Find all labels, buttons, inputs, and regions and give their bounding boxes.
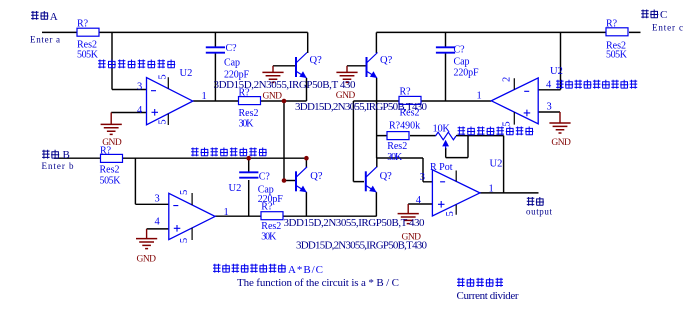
wire node A vertical to op-amp U2A pin 3 bbox=[112, 32, 147, 89]
junction dot Q2 collector on net B bbox=[304, 156, 309, 161]
svg-text:505K: 505K bbox=[100, 176, 122, 187]
svg-text:10K: 10K bbox=[433, 123, 451, 134]
wire row to op-amp U2D pin 3 bbox=[377, 158, 433, 182]
wire 490k resistor row bbox=[377, 135, 436, 137]
label adder op-amp note 2 bbox=[191, 148, 267, 157]
ground GND op-amp U2B pin4 bbox=[136, 229, 157, 264]
svg-text:3DD15D,2N3055,IRGP50B,T 430: 3DD15D,2N3055,IRGP50B,T 430 bbox=[214, 79, 357, 91]
resistor R? Res2 505K input C bbox=[606, 28, 628, 36]
wire Q3 collector lead bbox=[375, 32, 377, 53]
wire capacitor C2 top lead bbox=[248, 158, 250, 172]
svg-text:The function of the circuit is: The function of the circuit is a * B / C bbox=[237, 277, 399, 289]
wire op-amp U2B output row through R 30K bbox=[215, 215, 377, 217]
svg-text:4: 4 bbox=[416, 195, 422, 206]
svg-text:5: 5 bbox=[179, 190, 190, 195]
junction dot C2 on net B bbox=[246, 156, 251, 161]
wire op-amp U2B pin 4 bbox=[147, 228, 169, 230]
svg-text:C: C bbox=[660, 9, 667, 21]
svg-text:505K: 505K bbox=[606, 49, 628, 60]
svg-text:GND: GND bbox=[263, 91, 283, 101]
wire op-amp U2D pin 4 bbox=[408, 203, 432, 205]
label input C bbox=[641, 10, 658, 19]
svg-text:C?: C? bbox=[259, 172, 271, 183]
svg-text:U2: U2 bbox=[180, 68, 193, 79]
svg-text:3DD15D,2N3055,IRGP50B,T430: 3DD15D,2N3055,IRGP50B,T430 bbox=[296, 240, 428, 252]
wire capacitor C3 top lead bbox=[445, 32, 447, 47]
resistor R? Res2 stage C bbox=[399, 96, 421, 104]
wire rail C down to op-amp U2C pin 4 bbox=[538, 32, 561, 89]
svg-text:C?: C? bbox=[226, 43, 238, 54]
svg-text:Current divider: Current divider bbox=[457, 290, 519, 302]
wire potentiometer wiper loop bbox=[446, 136, 468, 158]
svg-text:GND: GND bbox=[551, 138, 571, 148]
junction dot node A output bbox=[282, 99, 287, 104]
svg-text:5: 5 bbox=[179, 238, 190, 243]
svg-text:3: 3 bbox=[547, 102, 552, 113]
svg-text:5: 5 bbox=[445, 211, 456, 216]
wire Q4 emitter lead bbox=[375, 192, 377, 216]
wire capacitor C3 bottom lead bbox=[445, 53, 447, 101]
capacitor C2 220pF bbox=[239, 172, 258, 177]
wire Q3 emitter vertical down to 490k row bbox=[376, 78, 378, 158]
svg-text:R?: R? bbox=[606, 19, 618, 30]
wire Q2 collector lead bbox=[305, 158, 307, 167]
svg-text:1: 1 bbox=[202, 91, 207, 102]
wire potentiometer right lead to feedback bbox=[456, 135, 504, 137]
op-amp U2D triangle bbox=[432, 170, 480, 216]
svg-text:A*B/C: A*B/C bbox=[288, 264, 323, 276]
transistor Q3 bbox=[367, 53, 378, 79]
svg-text:R?: R? bbox=[239, 88, 251, 99]
ground GND Q1 base bbox=[262, 66, 283, 102]
potentiometer 10K bbox=[436, 132, 457, 148]
svg-text:4: 4 bbox=[155, 217, 161, 228]
svg-text:R Pot: R Pot bbox=[430, 162, 453, 173]
svg-text:Res2: Res2 bbox=[387, 141, 407, 152]
label adder op-amp note 1 bbox=[98, 60, 175, 69]
ground GND op-amp U2A pin4 bbox=[101, 113, 122, 149]
label input A bbox=[31, 11, 48, 20]
resistor R? Res2 30K stage B bbox=[261, 212, 283, 220]
label input B bbox=[42, 150, 59, 159]
wire Q2 emitter lead bbox=[305, 192, 307, 216]
ground GND op-amp U2D pin4 bbox=[398, 204, 422, 243]
svg-text:Cap: Cap bbox=[454, 57, 470, 68]
wire capacitor C2 bottom lead bbox=[248, 180, 250, 216]
ground GND Q3 base bbox=[336, 66, 358, 101]
svg-text:B: B bbox=[63, 149, 70, 161]
wire Q4 collector lead bbox=[376, 158, 378, 167]
svg-text:3: 3 bbox=[420, 172, 425, 183]
svg-text:R?: R? bbox=[77, 19, 89, 30]
wire output bbox=[480, 192, 539, 194]
svg-text:Res2: Res2 bbox=[400, 108, 420, 119]
wire node vertical from output A node down to Q2 base bbox=[283, 101, 285, 181]
op-amp U2B triangle bbox=[169, 193, 215, 240]
wire input A horizontal bbox=[42, 31, 308, 33]
wire op-amp U2C pin 3 bbox=[538, 111, 560, 113]
wire node B vertical to op-amp U2B pin 3 bbox=[135, 158, 168, 204]
svg-text:1: 1 bbox=[224, 207, 229, 218]
svg-text:220pF: 220pF bbox=[454, 68, 479, 79]
svg-text:5: 5 bbox=[157, 119, 168, 124]
svg-text:output: output bbox=[526, 206, 552, 216]
svg-text:R?: R? bbox=[261, 201, 273, 212]
svg-text:Q?: Q? bbox=[380, 171, 393, 182]
svg-text:Cap: Cap bbox=[224, 58, 240, 69]
ground GND op-amp U2C pin3 bbox=[549, 112, 571, 148]
svg-text:5: 5 bbox=[157, 74, 168, 79]
capacitor C1 220pF bbox=[206, 47, 225, 52]
svg-text:4: 4 bbox=[137, 105, 143, 116]
svg-text:R?490k: R?490k bbox=[389, 121, 420, 132]
svg-text:30K: 30K bbox=[239, 119, 255, 130]
wire feedback vertical to op-amp U2D output bbox=[503, 136, 505, 193]
resistor R? Res2 505K input B bbox=[101, 154, 123, 162]
svg-text:R?: R? bbox=[100, 146, 112, 157]
svg-text:1: 1 bbox=[489, 184, 494, 195]
svg-text:5: 5 bbox=[501, 121, 512, 126]
svg-text:GND: GND bbox=[336, 91, 356, 101]
svg-text:R?: R? bbox=[400, 87, 412, 98]
op-amp U2C triangle (mirrored) bbox=[491, 78, 538, 125]
svg-text:Res2: Res2 bbox=[100, 164, 120, 175]
wire input B horizontal bbox=[54, 157, 306, 159]
svg-text:3: 3 bbox=[155, 194, 160, 205]
resistor R? Res2 30K stage A bbox=[239, 97, 261, 105]
svg-text:A: A bbox=[50, 11, 58, 23]
svg-text:3DD15D,2N3055,IRGP50B,T 430: 3DD15D,2N3055,IRGP50B,T 430 bbox=[284, 217, 426, 229]
label function note Chinese bbox=[213, 264, 286, 273]
svg-text:U2: U2 bbox=[550, 66, 563, 77]
svg-text:Enter a: Enter a bbox=[30, 34, 60, 44]
label output bbox=[527, 197, 544, 206]
svg-text:3: 3 bbox=[137, 81, 142, 92]
label current divider Chinese bbox=[457, 278, 503, 287]
svg-text:505K: 505K bbox=[77, 49, 99, 60]
svg-text:Res2: Res2 bbox=[239, 108, 259, 119]
wire vertical node down to Q4 base bbox=[353, 101, 364, 182]
svg-text:U2: U2 bbox=[490, 159, 503, 170]
wire Q2 base junction bbox=[284, 180, 296, 182]
svg-text:GND: GND bbox=[137, 254, 157, 264]
capacitor C3 220pF bbox=[436, 47, 455, 52]
transistor Q2 bbox=[296, 167, 307, 193]
wire Q1 collector lead bbox=[307, 32, 309, 53]
transistor Q1 bbox=[296, 53, 307, 79]
wire capacitor C1 top lead bbox=[214, 32, 216, 47]
transistor Q4 bbox=[366, 167, 377, 193]
svg-text:Enter c: Enter c bbox=[652, 23, 683, 33]
svg-text:30K: 30K bbox=[261, 231, 277, 242]
resistor R? Res2 505K input A bbox=[77, 28, 99, 36]
wire op-amp U2C output row through Res2 bbox=[353, 100, 491, 102]
wire Q3 base to GND bbox=[347, 65, 366, 67]
resistor R? 490k bbox=[387, 132, 409, 140]
svg-text:U2: U2 bbox=[229, 183, 242, 194]
svg-text:30K: 30K bbox=[387, 152, 403, 163]
wire op-amp U2A output through R 30K to node bbox=[193, 53, 307, 101]
svg-text:Q?: Q? bbox=[310, 55, 323, 66]
svg-text:1: 1 bbox=[477, 90, 482, 101]
wire op-amp U2A pin 4 bbox=[111, 112, 146, 114]
junction dot Q2 base node bbox=[282, 178, 287, 183]
svg-text:2: 2 bbox=[501, 77, 512, 82]
svg-text:Q?: Q? bbox=[380, 55, 393, 66]
svg-text:4: 4 bbox=[546, 80, 552, 91]
wire Q1 base to GND bbox=[273, 65, 296, 67]
svg-text:Q?: Q? bbox=[310, 171, 323, 182]
op-amp U2A triangle bbox=[147, 77, 193, 125]
label adder op-amp note 3 bbox=[458, 127, 534, 136]
wire input C top rail bbox=[376, 31, 640, 33]
svg-text:C?: C? bbox=[454, 45, 466, 56]
svg-text:Enter b: Enter b bbox=[42, 161, 75, 171]
